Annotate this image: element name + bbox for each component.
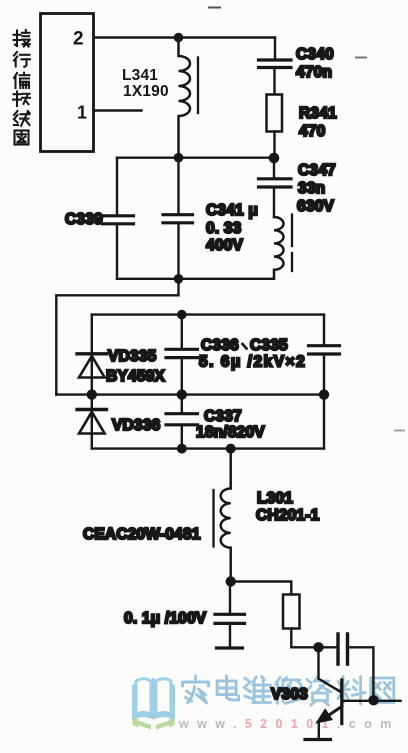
scan speck bbox=[209, 7, 220, 9]
svg-text:R341: R341 bbox=[299, 105, 337, 122]
svg-text:www.520101.com: www.520101.com bbox=[178, 717, 400, 731]
wire tank loop top bbox=[117, 156, 274, 158]
svg-text:V303: V303 bbox=[271, 686, 308, 703]
wire mid rail bbox=[56, 393, 324, 395]
watermark char 网 bbox=[371, 678, 394, 703]
junction collector node bbox=[368, 695, 378, 705]
yoke label char 偏 bbox=[14, 73, 30, 88]
svg-text:0. 33: 0. 33 bbox=[206, 220, 242, 237]
watermark char 修 bbox=[275, 678, 302, 704]
wire down-left to diode stage bbox=[56, 279, 178, 395]
resistor R341 bbox=[267, 95, 283, 132]
capacitor C341 bbox=[177, 158, 179, 214]
scan speck bbox=[395, 430, 404, 432]
capacitor C335 bbox=[323, 315, 325, 346]
junction bbox=[174, 274, 184, 284]
watermark ribbon bbox=[133, 719, 175, 730]
svg-text:VD336: VD336 bbox=[112, 417, 161, 434]
wire right side bbox=[323, 395, 325, 449]
yoke label char 行 bbox=[14, 52, 30, 67]
watermark char 资 bbox=[307, 677, 332, 706]
capacitor C337 bbox=[181, 395, 183, 414]
svg-text:C347: C347 bbox=[298, 162, 336, 179]
resistor (base drive) bbox=[283, 595, 300, 629]
watermark char 料 bbox=[337, 677, 365, 705]
svg-text:BY459X: BY459X bbox=[106, 368, 165, 385]
scan speck bbox=[356, 57, 366, 59]
capacitor C347 bbox=[273, 158, 275, 179]
yoke label char 转 bbox=[13, 92, 30, 107]
svg-text:470n: 470n bbox=[296, 64, 332, 81]
junction bbox=[174, 153, 184, 163]
yoke label char 圈 bbox=[15, 131, 29, 145]
svg-text:L301: L301 bbox=[257, 490, 293, 507]
watermark char 家 bbox=[183, 676, 209, 703]
junction node B bbox=[269, 153, 280, 164]
connector J1 (deflection yoke) bbox=[41, 14, 94, 152]
svg-text:630V: 630V bbox=[297, 198, 334, 215]
watermark book icon bbox=[134, 679, 174, 718]
svg-text:C335: C335 bbox=[250, 337, 288, 354]
junction bbox=[87, 389, 97, 399]
junction bbox=[226, 444, 236, 454]
svg-text:1: 1 bbox=[77, 103, 87, 123]
svg-text:C339: C339 bbox=[65, 211, 103, 228]
yoke label char 线 bbox=[14, 111, 30, 126]
svg-text:5. 6μ /2kV×2: 5. 6μ /2kV×2 bbox=[199, 354, 306, 371]
diode VD336 bbox=[91, 395, 93, 449]
wire tank loop bottom bbox=[117, 278, 274, 280]
transistor V303 bbox=[319, 647, 341, 692]
ground bar bbox=[217, 646, 243, 649]
svg-text:33n: 33n bbox=[298, 180, 325, 197]
junction bbox=[177, 389, 187, 399]
svg-text:C337: C337 bbox=[204, 408, 242, 425]
capacitor 0.1u/100V bbox=[229, 582, 231, 613]
svg-text:CEAC20W-0481: CEAC20W-0481 bbox=[83, 526, 201, 543]
junction bbox=[319, 389, 329, 399]
svg-text:C341 μ: C341 μ bbox=[206, 202, 258, 219]
wire stub pin1 bbox=[94, 109, 142, 111]
svg-text:2: 2 bbox=[73, 29, 84, 50]
svg-text:VD335: VD335 bbox=[108, 348, 157, 365]
svg-text:1X190: 1X190 bbox=[123, 83, 169, 100]
junction node C bbox=[226, 576, 236, 586]
svg-text:0. 1μ /100V: 0. 1μ /100V bbox=[124, 610, 207, 627]
capacitor C336 bbox=[181, 315, 183, 349]
svg-text:C340: C340 bbox=[296, 46, 334, 63]
wire node A to C340 bbox=[274, 38, 276, 59]
damping inductor bbox=[274, 217, 284, 279]
watermark char 电 bbox=[217, 676, 239, 700]
coupling capacitor bbox=[319, 646, 336, 648]
svg-text:470: 470 bbox=[299, 123, 325, 140]
svg-text:L341: L341 bbox=[122, 67, 158, 84]
watermark char 维 bbox=[244, 677, 271, 704]
junction bbox=[177, 444, 187, 454]
wire node C to resistor bbox=[231, 582, 292, 595]
svg-text:C336: C336 bbox=[201, 337, 239, 354]
inductor L301 bbox=[221, 449, 231, 582]
svg-text:18n/820V: 18n/820V bbox=[196, 424, 265, 441]
wire pin2 to node A bbox=[94, 36, 275, 38]
yoke label char 接 bbox=[14, 30, 30, 47]
svg-text:CH201-1: CH201-1 bbox=[256, 507, 320, 524]
junction base node bbox=[313, 642, 323, 652]
junction node A bbox=[174, 33, 184, 43]
wire resistor to base node bbox=[291, 629, 318, 648]
diode VD335 bbox=[91, 315, 93, 395]
wire diode box top bbox=[92, 313, 324, 315]
capacitor C340 bbox=[259, 60, 292, 68]
capacitor C339 bbox=[116, 158, 118, 215]
junction bbox=[177, 310, 187, 320]
svg-text:400V: 400V bbox=[206, 237, 243, 254]
wire diode box bottom bbox=[92, 447, 324, 449]
inductor L341 bbox=[179, 38, 191, 158]
ground bbox=[305, 738, 331, 741]
